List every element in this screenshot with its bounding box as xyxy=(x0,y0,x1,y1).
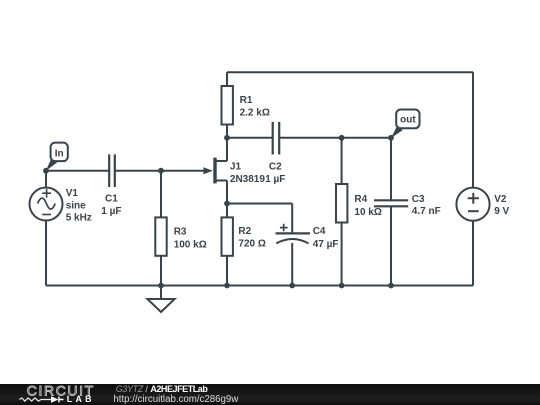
svg-text:100 kΩ: 100 kΩ xyxy=(174,239,207,250)
logo resistor zigzag xyxy=(19,398,51,401)
gate arrowhead of J1 xyxy=(204,167,213,174)
node In flag xyxy=(51,143,68,162)
transistor Q1 (JFET J1) xyxy=(215,158,227,184)
wire R2 bottom lead xyxy=(226,256,228,286)
label J1 value xyxy=(230,162,265,185)
resistor R1 xyxy=(222,86,233,125)
wire C3 bottom lead xyxy=(390,207,392,286)
label V1 value xyxy=(66,188,92,223)
wire top rail xyxy=(227,71,473,73)
label V2 value xyxy=(494,194,509,217)
label R4 value xyxy=(354,194,381,218)
label R1 value xyxy=(240,95,270,119)
wire R4 top lead xyxy=(341,138,343,184)
label C3 value xyxy=(412,194,441,217)
wire R4 bottom lead xyxy=(341,223,343,286)
svg-text:In: In xyxy=(55,149,64,160)
svg-text:sine: sine xyxy=(66,200,86,211)
node junction R2 top xyxy=(224,201,230,207)
svg-text:C1: C1 xyxy=(105,194,118,205)
label C4 value xyxy=(313,226,339,250)
svg-text:10 kΩ: 10 kΩ xyxy=(354,207,381,218)
node junction out xyxy=(388,135,394,141)
svg-text:R1: R1 xyxy=(240,95,253,106)
node junction ground rail C3 xyxy=(388,283,394,289)
wire C4 top lead xyxy=(291,204,293,234)
svg-text:47 µF: 47 µF xyxy=(313,239,339,250)
wire source row (J1 source to R2 top, to C4 branch) xyxy=(227,181,292,219)
node junction ground rail R4 xyxy=(339,283,345,289)
wire input row right (C1 to gate) xyxy=(115,170,205,172)
resistor R3 xyxy=(155,217,166,255)
node out flag xyxy=(396,110,419,129)
resistor R4 xyxy=(336,184,347,223)
node junction ground rail R3 xyxy=(158,283,164,289)
node junction gate branch xyxy=(158,168,164,174)
capacitor C4 (electrolytic) xyxy=(276,224,311,244)
svg-text:4.7 nF: 4.7 nF xyxy=(412,206,441,217)
svg-text:720 Ω: 720 Ω xyxy=(238,238,265,249)
wire drain row left (R1 bottom to C2 left plate) xyxy=(227,125,273,162)
node junction ground rail C4 xyxy=(289,283,295,289)
svg-text:R4: R4 xyxy=(354,194,367,205)
node junction R1 bottom / C2 xyxy=(224,135,230,141)
svg-text:R2: R2 xyxy=(238,226,251,237)
wire R1 top lead xyxy=(226,72,228,86)
wire R3 bottom lead xyxy=(160,256,162,286)
svg-text:C2: C2 xyxy=(269,162,282,173)
svg-text:C4: C4 xyxy=(313,226,326,237)
svg-text:R3: R3 xyxy=(174,226,187,237)
capacitor C2 xyxy=(273,122,280,155)
wire C3 top lead xyxy=(390,138,392,201)
wire V2 bottom lead xyxy=(472,221,474,286)
logo diode xyxy=(51,396,58,402)
node out flag pointer xyxy=(391,125,403,138)
svg-text:1 µF: 1 µF xyxy=(101,206,121,217)
wire V1 top lead xyxy=(45,171,47,188)
voltage source V2 xyxy=(456,188,489,221)
svg-text:out: out xyxy=(400,115,416,126)
svg-text:G3YTZ / A2HEJFETLab: G3YTZ / A2HEJFETLab xyxy=(116,384,209,394)
node junction ground rail R2 xyxy=(224,283,230,289)
wire R3 top lead xyxy=(160,171,162,218)
resistor R2 xyxy=(222,217,233,255)
svg-text:V1: V1 xyxy=(66,188,79,199)
wire bottom rail xyxy=(46,285,473,287)
svg-text:1 µF: 1 µF xyxy=(265,174,285,185)
label C2 value xyxy=(265,162,285,185)
capacitor C1 xyxy=(109,154,115,187)
label R2 value xyxy=(238,226,265,250)
svg-text:http://circuitlab.com/c286g9w: http://circuitlab.com/c286g9w xyxy=(113,394,239,405)
node In flag pointer xyxy=(46,158,57,171)
svg-text:J1: J1 xyxy=(230,162,242,173)
wire input row left (V1 node to C1) xyxy=(46,170,109,172)
svg-text:V2: V2 xyxy=(494,194,507,205)
node junction at In xyxy=(43,168,49,174)
ground xyxy=(147,286,174,313)
label R3 value xyxy=(174,226,207,250)
capacitor C3 xyxy=(374,200,408,206)
voltage source V1 xyxy=(30,188,63,221)
svg-text:2.2 kΩ: 2.2 kΩ xyxy=(240,108,270,119)
node junction R4 top xyxy=(339,135,345,141)
wire drain row right (C2 right plate to out node) xyxy=(279,137,391,139)
wire V2 top lead xyxy=(472,72,474,187)
svg-text:9 V: 9 V xyxy=(494,206,509,217)
svg-text:C3: C3 xyxy=(412,194,425,205)
label C1 value xyxy=(101,194,121,217)
wire V1 bottom lead xyxy=(45,221,47,286)
svg-text:5 kHz: 5 kHz xyxy=(66,213,92,224)
wire C4 bottom lead xyxy=(291,243,293,286)
svg-text:LAB: LAB xyxy=(67,394,95,404)
svg-text:2N3819: 2N3819 xyxy=(230,174,265,185)
